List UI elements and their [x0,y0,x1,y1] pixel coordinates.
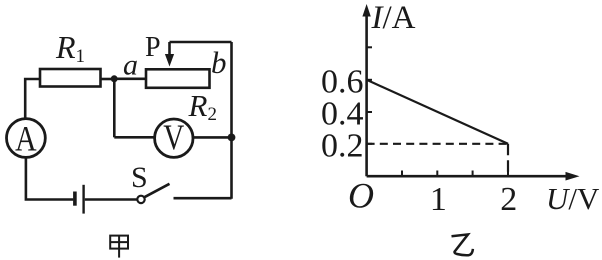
wire: switch to bottom-right corner [174,197,232,200]
svg-text:P: P [145,32,161,63]
wire: right vertical rail [230,42,233,199]
switch S lever [144,184,169,197]
I-U characteristic line [367,80,508,144]
label jia (甲) caption [110,236,128,258]
svg-text:0.2: 0.2 [321,128,364,165]
y-axis ticks [367,47,372,144]
wire: ammeter bottom, down and right to battery [26,157,73,199]
svg-text:1: 1 [430,181,447,218]
wire: battery to switch [85,198,137,201]
svg-text:U/V: U/V [546,181,600,216]
voltmeter V [155,119,193,157]
svg-text:a: a [123,49,138,82]
svg-text:O: O [348,176,374,216]
battery negative plate (short thick) [73,192,77,206]
svg-text:b: b [211,45,227,80]
wire: from slider up and right to right rail [170,41,232,44]
wire: R1 right end to node a [101,78,115,81]
x-axis ticks [402,171,508,177]
rheostat R2 body [146,69,210,88]
graph y-axis I/A [365,15,368,176]
vertical wire from node a down to voltmeter branch [113,79,116,138]
svg-text:V: V [163,117,184,157]
wire: corner to voltmeter left terminal [114,136,155,139]
node a (junction dot) [111,75,118,82]
slider P arrow onto rheostat [168,42,171,55]
wire: top-left from R1 left end, left and down to ammeter [25,79,40,118]
label yi (乙) caption [452,234,473,255]
junction dot on right rail [228,134,236,142]
svg-text:I/A: I/A [371,0,416,36]
switch S pivot circle [137,196,144,203]
svg-text:S: S [131,161,148,194]
resistor R1 [40,69,101,87]
wire: voltmeter right terminal to right rail junction [193,136,232,139]
dashed vertical at U=2 [507,144,509,176]
svg-text:A: A [15,118,37,158]
dashed horizontal at I=0.2 [367,143,508,145]
battery positive plate (long thin) [82,185,84,214]
graph x-axis U/V [367,175,567,178]
svg-text:2: 2 [500,181,517,218]
ammeter A [7,119,46,158]
wire: node a to rheostat left terminal [114,78,146,81]
